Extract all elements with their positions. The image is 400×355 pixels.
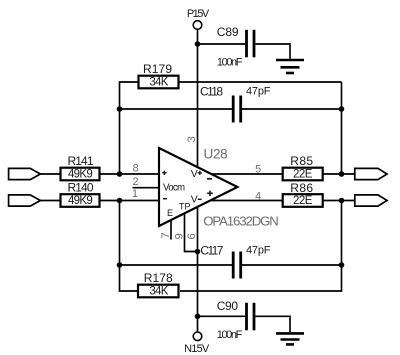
svg-text:P15V: P15V	[187, 8, 210, 20]
wire C117 right	[242, 264, 342, 266]
resistor R141	[61, 154, 100, 181]
svg-text:Vocm: Vocm	[163, 183, 185, 194]
svg-text:100nF: 100nF	[217, 329, 243, 341]
wire C118 left	[120, 108, 233, 110]
svg-text:R86: R86	[290, 181, 313, 195]
wire R86 to output	[323, 200, 355, 202]
pin 5 wire	[211, 173, 283, 175]
svg-text:4: 4	[255, 191, 261, 203]
svg-text:R141: R141	[68, 154, 94, 168]
wire junction to C90	[198, 315, 246, 317]
right vertical upper wire	[341, 82, 343, 174]
svg-text:22E: 22E	[293, 169, 313, 181]
junction left C118	[117, 106, 123, 112]
output connector OUT-	[355, 168, 387, 179]
svg-text:100nF: 100nF	[217, 56, 243, 68]
junction pin6/C90	[195, 314, 201, 320]
svg-text:1: 1	[132, 188, 138, 200]
svg-text:OPA1632DGN: OPA1632DGN	[203, 214, 278, 229]
wire P15V to pin3 V+	[197, 29, 199, 168]
wire C90 to ground	[255, 316, 290, 332]
svg-text:3: 3	[186, 136, 198, 142]
svg-text:R178: R178	[144, 271, 173, 285]
junction right C118	[339, 106, 345, 112]
svg-text:C118: C118	[200, 85, 223, 99]
wire IN- to R140	[40, 200, 60, 202]
pin label - (pin1)	[163, 198, 167, 200]
wire R140 to pin1	[100, 200, 159, 202]
op-amp U1 triangle	[159, 148, 238, 226]
ground (top)	[276, 60, 304, 73]
input connector IN-	[9, 195, 41, 206]
wire R179 right to right vertical	[179, 81, 342, 83]
resistor R178	[138, 271, 179, 298]
svg-text:8: 8	[133, 163, 139, 175]
power terminal N15V	[184, 332, 210, 355]
output + sign	[207, 191, 213, 196]
svg-text:V: V	[191, 168, 198, 180]
junction output top	[339, 171, 345, 177]
junction R141/feedback	[117, 171, 123, 177]
input connector IN+	[9, 168, 41, 179]
wire C118 right	[242, 108, 342, 110]
svg-text:47pF: 47pF	[246, 86, 271, 98]
wire R141 to pin8	[100, 173, 159, 175]
svg-text:22E: 22E	[293, 195, 313, 207]
svg-text:R140: R140	[68, 180, 94, 194]
resistor R140	[61, 180, 100, 207]
capacitor C117	[200, 243, 270, 278]
svg-text:U28: U28	[204, 146, 228, 161]
svg-text:N15V: N15V	[184, 343, 210, 355]
svg-text:E: E	[167, 208, 173, 218]
svg-text:V: V	[191, 194, 198, 206]
svg-text:R179: R179	[143, 62, 172, 76]
junction output bottom	[339, 198, 345, 204]
svg-text:C90: C90	[217, 299, 239, 313]
wire C89 to ground	[255, 44, 290, 59]
svg-text:2: 2	[132, 176, 138, 188]
svg-text:7: 7	[160, 232, 172, 238]
capacitor C118	[200, 85, 271, 123]
pin 9 wire to pin 6	[185, 214, 198, 252]
junction pin9/pin6	[195, 249, 201, 255]
pin 2 stub Vocm	[133, 187, 159, 189]
resistor R85	[283, 154, 323, 181]
wire C117 left	[120, 264, 233, 266]
pin 7 stub	[170, 220, 172, 240]
capacitor C89	[217, 25, 254, 68]
capacitor C90	[217, 299, 254, 341]
svg-text:5: 5	[255, 164, 261, 176]
right vertical lower wire	[180, 201, 342, 292]
svg-text:C89: C89	[217, 25, 239, 39]
junction R140/feedback	[117, 198, 123, 204]
power terminal P15V	[187, 8, 210, 29]
output connector OUT+	[355, 195, 387, 206]
svg-text:R85: R85	[290, 154, 313, 168]
junction P15V/C89	[195, 41, 201, 47]
svg-text:49K9: 49K9	[68, 169, 92, 181]
pin 4 wire	[210, 200, 282, 202]
svg-text:49K9: 49K9	[68, 195, 92, 207]
svg-text:6: 6	[186, 233, 198, 239]
svg-text:TP: TP	[179, 201, 191, 211]
junction left C117	[117, 262, 123, 268]
output - sign	[207, 178, 212, 180]
wire R179 left to left vertical	[120, 82, 139, 174]
wire IN+ to R141	[40, 173, 60, 175]
resistor R179	[139, 62, 179, 88]
wire junction to C89	[198, 43, 246, 45]
junction right C117	[339, 262, 345, 268]
svg-text:47pF: 47pF	[246, 245, 271, 257]
svg-text:34K: 34K	[149, 77, 168, 89]
pin 6 wire V- down to N15V	[197, 207, 199, 332]
left vertical lower wire	[120, 201, 139, 292]
resistor R86	[283, 181, 323, 207]
svg-text:C117: C117	[200, 243, 223, 257]
wire R85 to output	[323, 173, 355, 175]
pin label + (pin8)	[162, 171, 166, 175]
ground (bottom)	[276, 333, 304, 344]
svg-text:34K: 34K	[149, 286, 168, 298]
svg-text:9: 9	[174, 233, 186, 239]
